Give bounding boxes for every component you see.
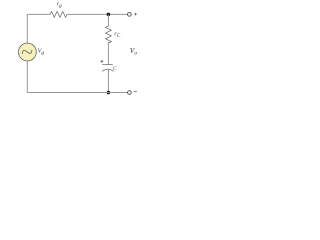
svg-text:rC: rC [114,31,120,39]
wire [27,14,50,43]
resistor rg [50,11,67,17]
terminal + [128,13,132,17]
node junction top [107,13,111,17]
terminal - [128,91,132,95]
svg-text:rg: rg [57,2,62,10]
wire [107,42,109,64]
resistor rC [106,26,112,43]
wire [27,92,127,94]
wire [26,61,28,93]
wire [107,14,109,26]
polarity + [101,60,104,63]
svg-text:Vg: Vg [38,47,45,56]
svg-text:C: C [113,66,117,72]
svg-text:Vo: Vo [130,46,138,57]
label - [134,91,137,93]
node junction bottom [107,91,111,95]
wire [107,70,109,93]
voltage source Vg [19,43,37,61]
wire [67,13,128,15]
capacitor C [102,65,113,72]
label + [134,13,137,16]
